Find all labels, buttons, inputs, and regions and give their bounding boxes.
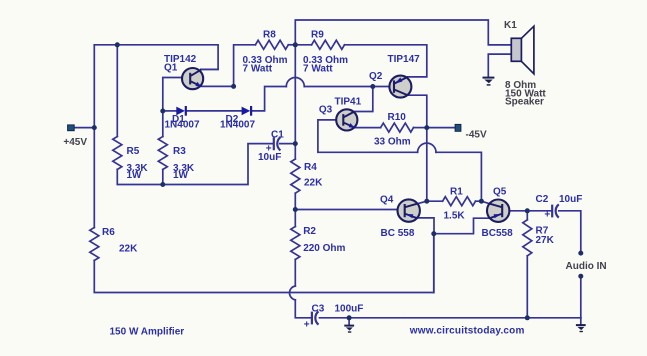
wire speaker bottom terminal to ground: [488, 54, 511, 77]
node R7 bottom: [525, 315, 530, 320]
node Audio IN bottom: [578, 274, 583, 279]
wire Q4 emitter coupling: [416, 218, 434, 234]
wire +45V rail top: [94, 45, 218, 70]
resistor R5: [113, 137, 122, 170]
wire hop over feedback rail: [289, 286, 295, 300]
node Q5 base R7 C2: [525, 208, 530, 213]
wire hop over output rail at y86: [286, 78, 304, 87]
svg-text:-45V: -45V: [466, 130, 487, 141]
svg-text:+: +: [304, 320, 310, 331]
node R3 bottom: [160, 182, 165, 187]
wire coupling dot to Q5 emitter: [434, 218, 491, 234]
wire C3 ground stub: [348, 318, 350, 325]
svg-text:K1: K1: [504, 20, 517, 31]
wire R8 to output node: [288, 44, 295, 46]
wire C2 right to Audio IN: [559, 211, 581, 253]
node Q1 emitter junction: [231, 84, 236, 89]
svg-text:C1: C1: [271, 130, 284, 141]
wire R7 bottom to rail: [526, 256, 528, 318]
wire R9 to Q2 collector branch: [345, 45, 427, 77]
transistor Q1 TIP142: [182, 68, 203, 89]
wire Q1 emitter to junction: [201, 85, 234, 87]
terminal -45V: [455, 124, 461, 131]
wire diode row: [163, 110, 177, 112]
svg-text:Q4: Q4: [380, 195, 394, 206]
wire Q5 collector to R1 right node: [481, 201, 490, 204]
wire Q2 base down to Q3 collector: [355, 87, 373, 112]
wire R2 bottom to hop: [294, 259, 296, 286]
svg-text:Q3: Q3: [319, 105, 333, 116]
svg-text:7 Watt: 7 Watt: [303, 63, 333, 74]
svg-text:1W: 1W: [127, 170, 143, 181]
wire +45V stub: [74, 127, 94, 129]
svg-text:10uF: 10uF: [258, 152, 281, 163]
node R1 left: [424, 199, 429, 204]
wire Q2 emitter branch down: [408, 95, 427, 127]
diode D2: [242, 106, 252, 116]
wire R10 to node: [414, 127, 427, 129]
wire D2 to emitter row: [252, 87, 286, 111]
wire Audio IN lower to rail: [580, 276, 582, 318]
node D1 R3 junction: [160, 109, 165, 114]
wire output rail down from node: [294, 45, 296, 144]
speaker K1: [511, 26, 534, 74]
svg-text:TIP147: TIP147: [388, 54, 421, 65]
node emitter coupling: [431, 231, 436, 236]
wire Q3 emitter to R10: [354, 127, 381, 129]
svg-text:Q2: Q2: [369, 71, 383, 82]
wire Q1 base: [163, 78, 190, 137]
node Q2 base: [370, 84, 375, 89]
wire R7 top lead: [526, 211, 528, 220]
svg-text:100uF: 100uF: [335, 304, 364, 315]
svg-text:33 Ohm: 33 Ohm: [374, 136, 411, 147]
wire R5 top lead: [116, 45, 118, 137]
node R10 -45V: [424, 125, 429, 130]
wire Q4 collector to R1 left node: [417, 201, 427, 204]
svg-text:www.circuitstoday.com: www.circuitstoday.com: [409, 325, 525, 336]
wire left column to R6 top: [93, 45, 95, 228]
resistor R3: [158, 137, 167, 170]
svg-text:BC 558: BC 558: [381, 228, 415, 239]
ground speaker: [483, 78, 495, 85]
transistor Q2 TIP147: [389, 76, 411, 98]
wire R6 bottom to feedback rail: [94, 234, 434, 293]
wire hop to Q5 collector node: [436, 152, 481, 201]
wire junction to C2: [527, 210, 551, 212]
resistor R9: [312, 40, 345, 49]
wire emitter junction up to R8: [234, 45, 256, 87]
svg-text:R9: R9: [311, 30, 324, 41]
terminal +45V: [68, 125, 75, 131]
resistor R1: [443, 197, 476, 206]
svg-text:1W: 1W: [173, 170, 189, 181]
node output R8 R9: [293, 42, 298, 47]
wire right ground stub: [580, 318, 582, 324]
svg-text:R4: R4: [304, 162, 317, 173]
wire output rail to R4: [294, 144, 296, 159]
capacitor C2: [552, 204, 559, 217]
ground bottom right: [576, 325, 586, 331]
svg-text:R1: R1: [450, 187, 463, 198]
svg-text:Q5: Q5: [493, 187, 507, 198]
svg-text:C3: C3: [312, 304, 325, 315]
wire Q1 collector lead: [201, 68, 218, 70]
svg-text:1.5K: 1.5K: [444, 210, 466, 221]
wire R5 bottom row y=184.5: [117, 144, 272, 185]
node R4 R2 Q4 base: [293, 207, 298, 212]
svg-text:22K: 22K: [304, 178, 323, 189]
transistor Q4 BC558: [398, 199, 420, 221]
capacitor C1: [274, 137, 281, 150]
svg-text:27K: 27K: [536, 235, 555, 246]
svg-text:R10: R10: [388, 112, 407, 123]
wire Q4 base node to R2: [294, 210, 296, 227]
wire D1-D2 link: [187, 110, 242, 112]
svg-text:Q1: Q1: [164, 63, 178, 74]
wire down to bottom rail corner: [295, 300, 311, 318]
svg-text:BC558: BC558: [482, 228, 514, 239]
svg-text:C2: C2: [536, 194, 549, 205]
wire C1 right to output rail: [280, 143, 296, 145]
svg-text:22K: 22K: [119, 244, 138, 255]
svg-text:R2: R2: [303, 226, 316, 237]
svg-text:220 Ohm: 220 Ohm: [303, 243, 345, 254]
node Audio IN top: [578, 251, 583, 256]
svg-text:R6: R6: [102, 227, 115, 238]
ground C3: [344, 326, 354, 332]
svg-text:7 Watt: 7 Watt: [243, 63, 273, 74]
node +45V tap: [92, 125, 97, 130]
node R5 top: [115, 42, 120, 47]
resistor R7: [523, 220, 532, 256]
wire R1 left lead: [427, 200, 443, 202]
wire hop over -45V column at y152: [418, 143, 436, 152]
wire output node up and to speaker: [295, 20, 511, 45]
wire R4 to Q4 base node: [294, 193, 296, 209]
wire coupling dot down to feedback rail: [433, 234, 435, 293]
svg-text:150 W Amplifier: 150 W Amplifier: [110, 327, 185, 338]
svg-text:TIP41: TIP41: [335, 96, 362, 107]
svg-text:+45V: +45V: [63, 137, 87, 148]
svg-text:R8: R8: [263, 30, 276, 41]
wire Q3 base loop: [318, 120, 418, 152]
svg-text:1N4007: 1N4007: [165, 119, 200, 130]
resistor R4: [291, 159, 300, 193]
wire Q5 base to junction: [503, 210, 528, 212]
svg-text:Speaker: Speaker: [505, 97, 544, 108]
node C3 ground: [347, 315, 352, 320]
resistor R8: [255, 40, 288, 49]
svg-text:R5: R5: [127, 146, 140, 157]
svg-text:R3: R3: [173, 146, 186, 157]
resistor R10: [381, 123, 414, 132]
svg-text:Audio IN: Audio IN: [566, 261, 607, 272]
capacitor C3: [312, 311, 319, 324]
svg-text:10uF: 10uF: [559, 194, 582, 205]
wire emitter row to Q2 base: [304, 86, 393, 88]
node C1 output rail: [293, 141, 298, 146]
wire -45V column down to R1: [426, 128, 428, 202]
svg-text:1N4007: 1N4007: [220, 119, 255, 130]
resistor R6: [90, 228, 99, 261]
diode D1: [176, 106, 186, 116]
resistor R2: [291, 227, 300, 260]
transistor Q3 TIP41: [336, 109, 357, 130]
node R1 right: [479, 199, 484, 204]
svg-text:+: +: [544, 209, 550, 220]
wire Q4 base: [295, 209, 404, 211]
transistor Q5 BC558: [487, 200, 509, 222]
wire R10 right to -45V square: [427, 127, 456, 129]
wire R1 right lead: [476, 200, 482, 202]
wire output node to R9: [295, 44, 311, 46]
wire R3 bottom lead: [162, 169, 164, 184]
wire C3 right to bottom rail: [320, 317, 581, 319]
